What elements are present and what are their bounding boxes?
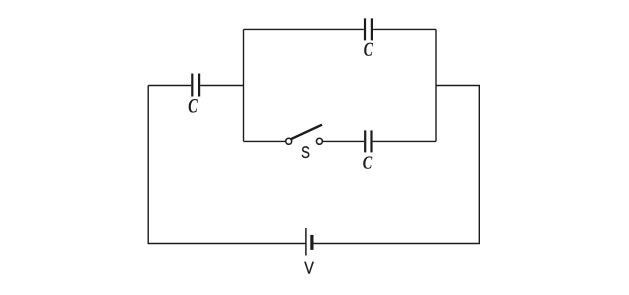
wire: inner loop right vertical [435, 29, 437, 141]
wire: inner loop bottom right segment (capacitor C3 to right side) [373, 140, 436, 142]
wire: inner loop bottom middle segment (switch S to capacitor C3) [323, 140, 364, 142]
capacitor C3 (inner loop bottom branch) [365, 130, 371, 152]
switch S: right contact circle [316, 138, 322, 144]
battery V: short thick plate [310, 235, 313, 250]
label S (switch) [302, 146, 310, 158]
wire: outer right vertical [478, 86, 480, 244]
wire: right connector between inner loop and outer right wire [436, 85, 480, 87]
wire: top-left branch left segment (node to capacitor C1) [148, 85, 191, 87]
wire: outer bottom right segment (from battery) [313, 243, 480, 245]
wire: outer bottom left segment (to battery) [148, 243, 306, 245]
wire: inner loop bottom left segment (to switch S) [244, 140, 286, 142]
label C (capacitor C1) [189, 99, 198, 113]
label V (battery) [304, 262, 313, 274]
capacitor C1 (left branch) [192, 74, 199, 97]
wire: inner loop top right segment (capacitor C2 to right side) [373, 28, 436, 30]
switch S: left contact circle [286, 138, 292, 144]
label C (capacitor C3) [363, 156, 372, 168]
wire: inner loop left vertical [243, 29, 245, 141]
wire: inner loop top left segment (to capacitor C2) [244, 28, 364, 30]
wire: top-left branch right segment (capacitor C1 to inner loop) [200, 85, 243, 87]
capacitor C2 (inner loop top branch) [365, 18, 372, 40]
battery V: long thin plate [305, 228, 307, 256]
wire: outer left vertical [147, 86, 149, 244]
label C (capacitor C2) [364, 43, 373, 56]
switch S: lever arm (open) [291, 125, 322, 140]
